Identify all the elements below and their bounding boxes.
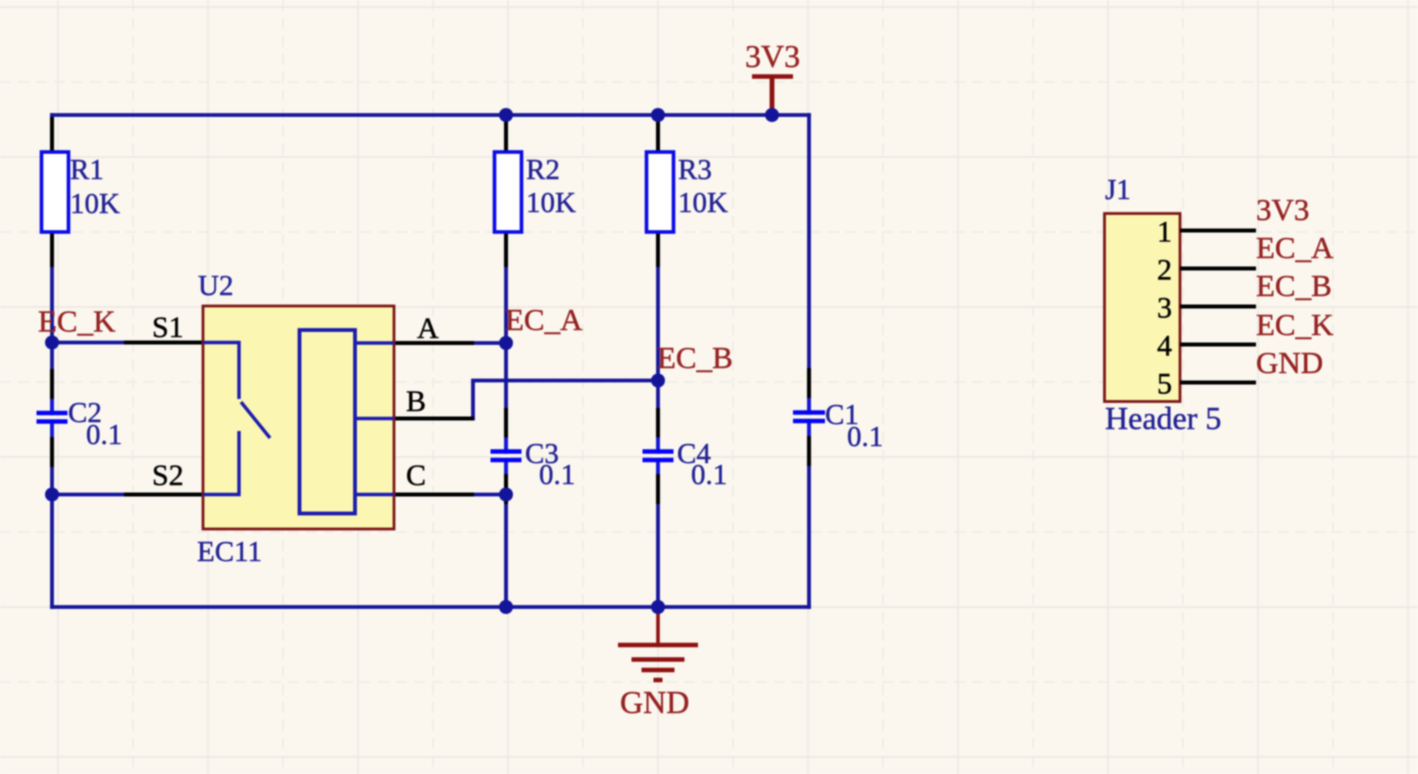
- power symbol 3V3: [745, 38, 800, 113]
- J1 pin 5: [1157, 368, 1256, 401]
- svg-text:EC_B: EC_B: [1256, 268, 1332, 303]
- junction bottom C3: [499, 600, 513, 614]
- svg-text:S2: S2: [152, 459, 184, 492]
- svg-text:EC_A: EC_A: [505, 302, 583, 337]
- pin U2 A: [394, 341, 474, 345]
- svg-text:3: 3: [1157, 292, 1172, 325]
- J1 pin 4: [1157, 330, 1256, 363]
- svg-text:R3: R3: [678, 154, 712, 186]
- wire mid rail 2 (R3/C4): [656, 115, 660, 607]
- capacitor C1: [793, 398, 883, 453]
- pin C2 leads: [50, 369, 54, 467]
- svg-text:10K: 10K: [70, 188, 120, 220]
- pin C1 leads: [807, 368, 811, 466]
- svg-text:2: 2: [1157, 254, 1172, 287]
- pin U2 S2: [124, 493, 203, 497]
- junction top R2: [499, 108, 513, 122]
- wire A row to EC_A: [472, 341, 506, 345]
- pin U2 C: [394, 493, 474, 497]
- wire S2 row: [52, 493, 126, 497]
- svg-text:U2: U2: [198, 270, 233, 302]
- capacitor C3: [491, 438, 576, 492]
- svg-text:1: 1: [1157, 216, 1172, 249]
- wire right rail (C1): [807, 115, 811, 607]
- wire bottom rail GND net: [52, 605, 809, 609]
- U2 switch symbol: [203, 343, 270, 495]
- svg-text:10K: 10K: [526, 187, 576, 219]
- svg-text:EC11: EC11: [197, 536, 262, 568]
- wire C row: [472, 493, 506, 497]
- pin C3 leads: [504, 408, 508, 504]
- junction left S2: [45, 488, 59, 502]
- svg-text:5: 5: [1157, 368, 1172, 401]
- pin R3 top/bottom: [656, 117, 660, 267]
- svg-text:C: C: [406, 459, 426, 492]
- svg-text:J1: J1: [1105, 174, 1131, 206]
- capacitor C2: [37, 397, 123, 451]
- svg-text:S1: S1: [152, 311, 184, 344]
- pin U2 B: [394, 417, 474, 421]
- svg-text:EC_K: EC_K: [38, 304, 116, 339]
- J1 pin 2: [1157, 254, 1256, 287]
- capacitor C4: [643, 438, 728, 492]
- J1 pin 1: [1157, 216, 1256, 249]
- junction EC_A: [499, 336, 513, 350]
- resistor R2: [495, 152, 577, 232]
- svg-text:GND: GND: [620, 684, 689, 720]
- junction EC_B: [651, 374, 665, 388]
- U2 inner pin stubs A B C: [355, 343, 394, 495]
- J1 pin 3: [1157, 292, 1256, 325]
- wire B path to EC_B: [473, 381, 658, 419]
- pin R2 top/bottom: [504, 117, 508, 267]
- svg-text:GND: GND: [1256, 345, 1323, 380]
- junction top R3: [651, 108, 665, 122]
- svg-text:3V3: 3V3: [745, 38, 800, 74]
- svg-text:0.1: 0.1: [691, 459, 727, 491]
- svg-text:A: A: [417, 312, 439, 345]
- svg-text:0.1: 0.1: [847, 421, 883, 453]
- resistor R3: [647, 152, 729, 232]
- wire S1 row EC_K: [52, 341, 126, 345]
- wire left rail: [50, 115, 54, 607]
- resistor R1: [42, 152, 121, 232]
- junction C row: [499, 488, 513, 502]
- svg-text:EC_B: EC_B: [657, 340, 733, 375]
- pin U2 S1: [124, 341, 203, 345]
- svg-text:3V3: 3V3: [1256, 192, 1309, 227]
- pin R1 top/bottom: [50, 117, 54, 267]
- svg-text:B: B: [406, 385, 426, 418]
- junction bottom GND: [651, 600, 665, 614]
- svg-text:R1: R1: [70, 154, 104, 186]
- wire mid rail 1 (R2/C3): [504, 115, 508, 607]
- U2 encoder inner rect: [300, 330, 356, 514]
- encoder U2 body: [197, 270, 394, 568]
- svg-text:0.1: 0.1: [86, 419, 122, 451]
- svg-text:EC_K: EC_K: [1256, 307, 1334, 342]
- svg-text:R2: R2: [526, 154, 560, 186]
- svg-text:10K: 10K: [678, 187, 728, 219]
- pin C4 leads: [656, 408, 660, 504]
- header J1 body: [1105, 174, 1222, 436]
- junction top 3V3: [765, 108, 779, 122]
- junction EC_K: [45, 336, 59, 350]
- ground symbol GND: [618, 609, 698, 720]
- svg-text:Header 5: Header 5: [1105, 400, 1221, 436]
- wire top rail 3V3 net: [52, 113, 809, 117]
- svg-text:EC_A: EC_A: [1256, 230, 1334, 265]
- svg-text:0.1: 0.1: [539, 459, 575, 491]
- svg-text:4: 4: [1157, 330, 1172, 363]
